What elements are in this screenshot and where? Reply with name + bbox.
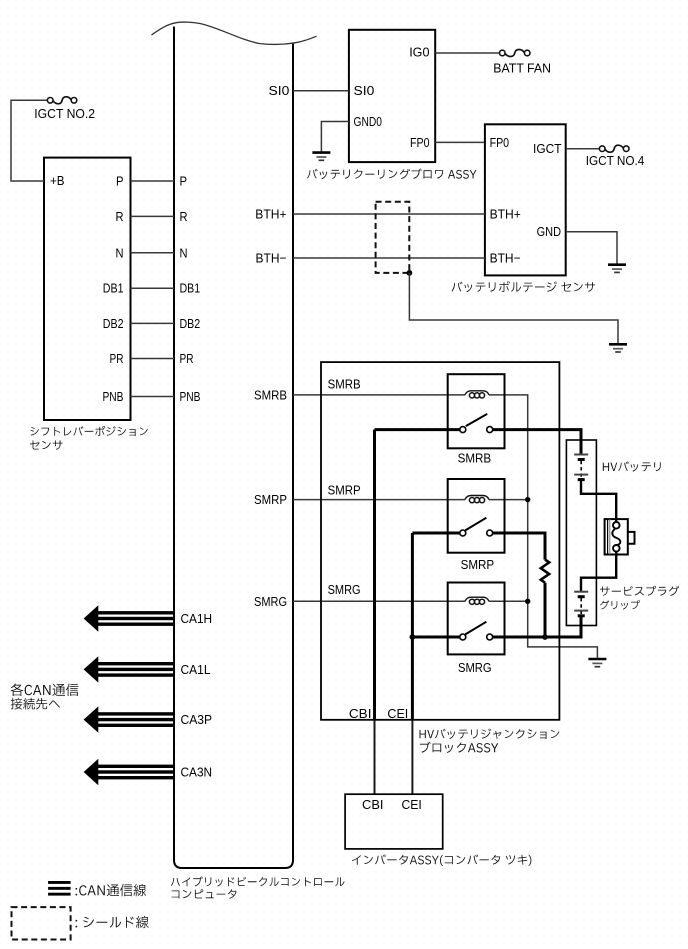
relay SMRG coil xyxy=(465,597,489,601)
svg-text:PNB: PNB xyxy=(180,389,201,404)
ground for sensor GND xyxy=(608,265,626,273)
wire +B to IGCT NO.2 fuse xyxy=(11,100,48,181)
wire SMRP coil tail xyxy=(489,499,528,501)
wire DB2 xyxy=(131,322,175,324)
label: label CAN destinations line1 xyxy=(11,684,79,697)
fuse IGCT NO.2 xyxy=(47,98,53,104)
svg-text:IGCT: IGCT xyxy=(533,141,562,156)
label: label service-plug line2 xyxy=(600,600,640,609)
node dot SMRP coil junction xyxy=(525,497,530,502)
service plug contacts xyxy=(613,522,620,529)
relay SMRG switch contacts xyxy=(460,634,466,640)
svg-text:P: P xyxy=(180,174,188,189)
svg-text:IG0: IG0 xyxy=(409,45,429,60)
thick wire SMRB switch to HV battery + and CBI vertical xyxy=(375,428,461,431)
svg-text:IGCT NO.4: IGCT NO.4 xyxy=(586,153,645,168)
wire IG0 to BATT FAN fuse xyxy=(435,52,500,54)
svg-text:N: N xyxy=(116,245,124,260)
label: label computer line2 xyxy=(172,889,237,898)
relay SMRG box xyxy=(448,583,505,655)
ECU U1 torn-top wavy edge xyxy=(152,22,317,44)
box: battery voltage sensor xyxy=(485,124,566,275)
label: label service-plug line1 xyxy=(600,586,679,596)
wire BTH+ xyxy=(293,213,485,215)
wire resistor bottom xyxy=(544,583,547,637)
wire N xyxy=(131,252,175,254)
svg-text:CA3N: CA3N xyxy=(181,765,213,780)
svg-text:GND0: GND0 xyxy=(354,114,382,129)
label: legend text CAN line xyxy=(76,884,147,896)
svg-text:SMRP: SMRP xyxy=(254,492,287,507)
wire PR xyxy=(131,358,175,360)
wire SMRP coil feed xyxy=(293,499,465,501)
battery BT1 lower cell plates xyxy=(574,592,588,616)
svg-text:P: P xyxy=(116,174,124,189)
relay SMRB box xyxy=(448,374,505,448)
legend symbol: shield dashed box xyxy=(12,907,71,939)
fuse IGCT NO.4 xyxy=(599,146,605,152)
wire DB1 xyxy=(131,287,175,289)
wire SI0 xyxy=(293,90,349,92)
svg-text:BTH−: BTH− xyxy=(490,251,521,266)
node: shield drain junction dot xyxy=(407,270,413,276)
CAN bus arrow CA1L xyxy=(84,656,174,682)
fuse BATT FAN xyxy=(500,50,506,56)
svg-text:SMRG: SMRG xyxy=(328,582,361,597)
wire CEI vertical to inverter xyxy=(411,533,414,720)
svg-text:GND: GND xyxy=(537,224,561,239)
wire R xyxy=(131,215,175,217)
node dot CEI/SMRG junction xyxy=(410,634,416,640)
svg-text:FP0: FP0 xyxy=(490,135,510,150)
label: label blower xyxy=(307,169,476,180)
relay SMRB coil xyxy=(465,391,489,395)
box: inverter ASSY xyxy=(345,794,443,849)
label: label shift-sensor line2 xyxy=(30,440,63,449)
relay SMRG switch blade xyxy=(465,622,486,635)
relay SMRP coil xyxy=(465,496,489,500)
svg-text:PR: PR xyxy=(180,351,194,366)
wire shield drain to ground xyxy=(409,273,618,344)
resistor R1 precharge xyxy=(541,560,549,583)
svg-text:CBI: CBI xyxy=(362,797,384,812)
wire coil return bus (grey) to ground xyxy=(489,395,597,659)
relay SMRP switch blade xyxy=(465,518,486,531)
svg-text:DB1: DB1 xyxy=(103,281,124,296)
label: label battery-voltage-sensor xyxy=(452,281,595,292)
node dot SMRG coil junction xyxy=(525,599,530,604)
label: label HV battery xyxy=(603,461,661,471)
svg-text:CBI: CBI xyxy=(349,706,372,721)
wire BTH- xyxy=(293,257,485,259)
svg-text:CA1H: CA1H xyxy=(181,611,213,626)
wire SMRG coil tail xyxy=(489,600,528,602)
ground for shield drain xyxy=(609,344,627,352)
label: label junction-block line2 xyxy=(420,742,499,753)
service plug wavy link xyxy=(612,528,620,545)
pin labels sensor side P R N DB1 DB2 PR PNB xyxy=(103,174,124,405)
wire GND to ground xyxy=(566,232,617,265)
svg-text:SMRB: SMRB xyxy=(254,387,287,402)
svg-text:CEI: CEI xyxy=(402,797,422,812)
svg-text:BTH−: BTH− xyxy=(256,251,287,266)
service plug inner rail xyxy=(607,519,609,554)
wire service plug bottom to battery lower cell xyxy=(581,551,616,591)
relay SMRP box xyxy=(448,479,505,553)
svg-text:DB1: DB1 xyxy=(180,281,201,296)
CAN bus arrow CA3N xyxy=(84,759,174,785)
wire FP0 xyxy=(435,141,485,143)
label: label junction-block line1 xyxy=(420,729,560,740)
svg-text:SMRG: SMRG xyxy=(254,594,287,609)
thick wire SMRP switch to resistor and CEI vertical xyxy=(412,532,460,535)
svg-text:PNB: PNB xyxy=(103,389,124,404)
CAN bus arrow CA1H xyxy=(84,605,174,631)
svg-text:SMRG: SMRG xyxy=(458,660,492,675)
box: battery cooling blower ASSY xyxy=(349,30,435,162)
ground for coil return xyxy=(588,659,606,667)
CAN bus arrow CA3P xyxy=(84,706,174,732)
wire battery mid to service plug top xyxy=(581,480,616,522)
label: label computer line1 xyxy=(171,876,345,886)
wire PNB xyxy=(131,396,175,398)
ECU U1: hybrid vehicle control computer body xyxy=(174,27,293,869)
relay SMRB switch contacts xyxy=(460,427,466,433)
service plug grip box xyxy=(605,519,628,554)
node dot resistor/SMRG junction xyxy=(542,634,548,640)
relay SMRB switch blade xyxy=(466,414,487,426)
svg-text:SMRP: SMRP xyxy=(461,557,495,572)
svg-text:DB2: DB2 xyxy=(180,316,201,331)
svg-text:SMRP: SMRP xyxy=(328,482,361,497)
svg-text:SMRB: SMRB xyxy=(328,377,361,392)
svg-text:R: R xyxy=(180,209,188,224)
wire P xyxy=(131,180,175,182)
svg-text:CA3P: CA3P xyxy=(181,712,213,727)
battery BT1 top cell plates xyxy=(574,455,588,480)
shield box (dashed) around BTH wires xyxy=(376,202,410,273)
svg-text:SMRB: SMRB xyxy=(458,450,492,465)
wire GND0 to ground xyxy=(321,122,349,153)
svg-text:SI0: SI0 xyxy=(354,83,375,98)
legend symbol: CAN bus bars xyxy=(48,881,71,896)
battery BT1: HV battery outline xyxy=(566,440,596,626)
svg-text:BATT FAN: BATT FAN xyxy=(493,60,551,75)
svg-text:N: N xyxy=(180,245,188,260)
service plug side tab xyxy=(628,532,635,544)
label: label CAN destinations line2 xyxy=(11,698,60,710)
svg-text:BTH+: BTH+ xyxy=(490,207,521,222)
label: legend text shield line xyxy=(76,916,149,928)
svg-text:R: R xyxy=(116,209,124,224)
pin labels ECU side P R N DB1 DB2 PR PNB xyxy=(180,174,201,405)
svg-text:CEI: CEI xyxy=(387,706,408,721)
thick wire SMRG switch to HV battery - xyxy=(412,636,460,639)
svg-text:FP0: FP0 xyxy=(410,135,430,150)
svg-text:BTH+: BTH+ xyxy=(255,207,286,222)
svg-text:+B: +B xyxy=(50,173,65,188)
relay SMRP switch contacts xyxy=(460,530,466,536)
svg-text:SI0: SI0 xyxy=(269,83,290,98)
svg-text:CA1L: CA1L xyxy=(181,662,211,677)
label: label inverter xyxy=(352,854,531,866)
svg-text:DB2: DB2 xyxy=(103,316,124,331)
wire IGCT to fuse xyxy=(566,148,600,150)
connector: shift lever position sensor box xyxy=(44,158,131,420)
box: HV battery junction block ASSY xyxy=(321,362,559,720)
label: label shift-sensor line1 xyxy=(30,426,148,436)
svg-text:PR: PR xyxy=(110,351,124,366)
wire CBI vertical to inverter xyxy=(373,430,376,720)
svg-text:IGCT NO.2: IGCT NO.2 xyxy=(34,106,95,121)
wire SMRG coil feed xyxy=(293,600,465,602)
wire SMRB coil feed xyxy=(293,394,465,396)
ground for GND0 xyxy=(312,153,330,161)
